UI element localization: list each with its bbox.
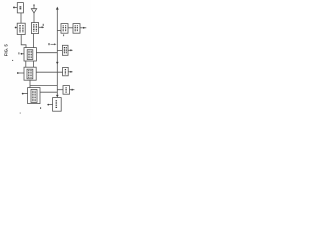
antenna A1 (31, 5, 36, 13)
wire B2 right to terminal dot (39, 26, 42, 28)
wire R2 to terminal dot (68, 49, 70, 51)
wire R3 to terminal dot (68, 71, 70, 73)
wire U1 right to bus and box R2 (36, 50, 62, 52)
block C (61, 24, 68, 34)
wire dot to U2 (19, 72, 24, 74)
wire B1 down to big box U1 (21, 35, 26, 48)
svg-text:FIG. 5: FIG. 5 (3, 44, 8, 57)
block R4 (63, 86, 70, 95)
label numeral speck left of U1 area (12, 60, 14, 61)
bus arrowhead down mid (56, 62, 59, 65)
label inside BB (55, 100, 57, 109)
wire T1 down to box B1 (20, 13, 22, 23)
block T1 top-left box (17, 3, 23, 13)
wire antenna down to box B2 (33, 13, 35, 23)
node terminal dot right of B2 (41, 26, 43, 28)
wire dot to U3 (24, 93, 28, 95)
node input terminal dot top-left (13, 6, 15, 8)
label numeral speck bottom-left (19, 113, 21, 114)
label text inside B2 (33, 24, 35, 32)
block R3 (63, 67, 69, 75)
wires U1 down to U2 (26, 61, 34, 67)
U1 inner label box (27, 50, 33, 60)
wire dot to box T1 (15, 6, 17, 8)
block R2 (62, 45, 68, 55)
antenna A1 top dot (33, 4, 34, 5)
label inside R4 (65, 87, 67, 92)
U3 inner text (32, 91, 34, 102)
big block U1 outer (24, 48, 36, 61)
label numeral near B2 terminal (42, 24, 44, 26)
label inside T1 (19, 6, 21, 9)
U2 inner label box (27, 69, 33, 79)
label numeral below U3 (40, 107, 42, 109)
node terminal dot right of R3 (70, 71, 72, 73)
node dot left of U1 (21, 53, 23, 55)
main vertical bus wire (56, 9, 58, 96)
block D (73, 24, 80, 34)
node terminal dot right of R2 (70, 49, 72, 51)
label text inside B1 (19, 25, 21, 33)
wire U2 bottom L to bus (30, 80, 57, 87)
wire B2 down to big box U1 (33, 34, 35, 48)
bus arrowhead down into bottom box (56, 95, 59, 98)
wire bus to box C (57, 30, 61, 32)
wire U3 right to bus (40, 91, 57, 93)
bottom-left block U3 outer (28, 88, 40, 104)
wire dot to BB (49, 104, 53, 106)
label numeral below C (63, 34, 65, 36)
node dot left of B1 (15, 27, 17, 29)
wire C to D (68, 27, 73, 29)
mid block U2 outer (24, 67, 36, 80)
node terminal dot right of R4 (71, 89, 73, 91)
bus arrowhead up (output) (56, 7, 59, 10)
node dot left of BB (47, 104, 49, 106)
label inside D (74, 25, 76, 31)
U2 inner text (28, 70, 30, 78)
label inside R2 (63, 47, 65, 54)
node terminal dot right of D (83, 27, 85, 29)
node dot left of U3 (22, 93, 24, 95)
wire dot to B1 (15, 27, 18, 29)
block B1 (left, row 2) (17, 23, 25, 34)
wire dot to U1 (22, 53, 24, 55)
U3 inner label box (31, 90, 37, 103)
label arrow pointing at bus (48, 43, 50, 45)
wire bus to R4 (57, 89, 63, 91)
block B2 (row 2, under antenna) (31, 23, 38, 34)
wire D to terminal dot (80, 27, 83, 29)
label numeral 9 left of U1 (18, 52, 20, 54)
label inside R3 (64, 69, 66, 74)
bottom block BB (53, 98, 62, 112)
label inside C (62, 25, 64, 31)
U1 inner text (28, 51, 30, 59)
wire U2 right to bus and box R3 (36, 71, 62, 73)
node dot left of U2 (17, 72, 19, 74)
wire R4 to terminal dot (70, 89, 72, 91)
